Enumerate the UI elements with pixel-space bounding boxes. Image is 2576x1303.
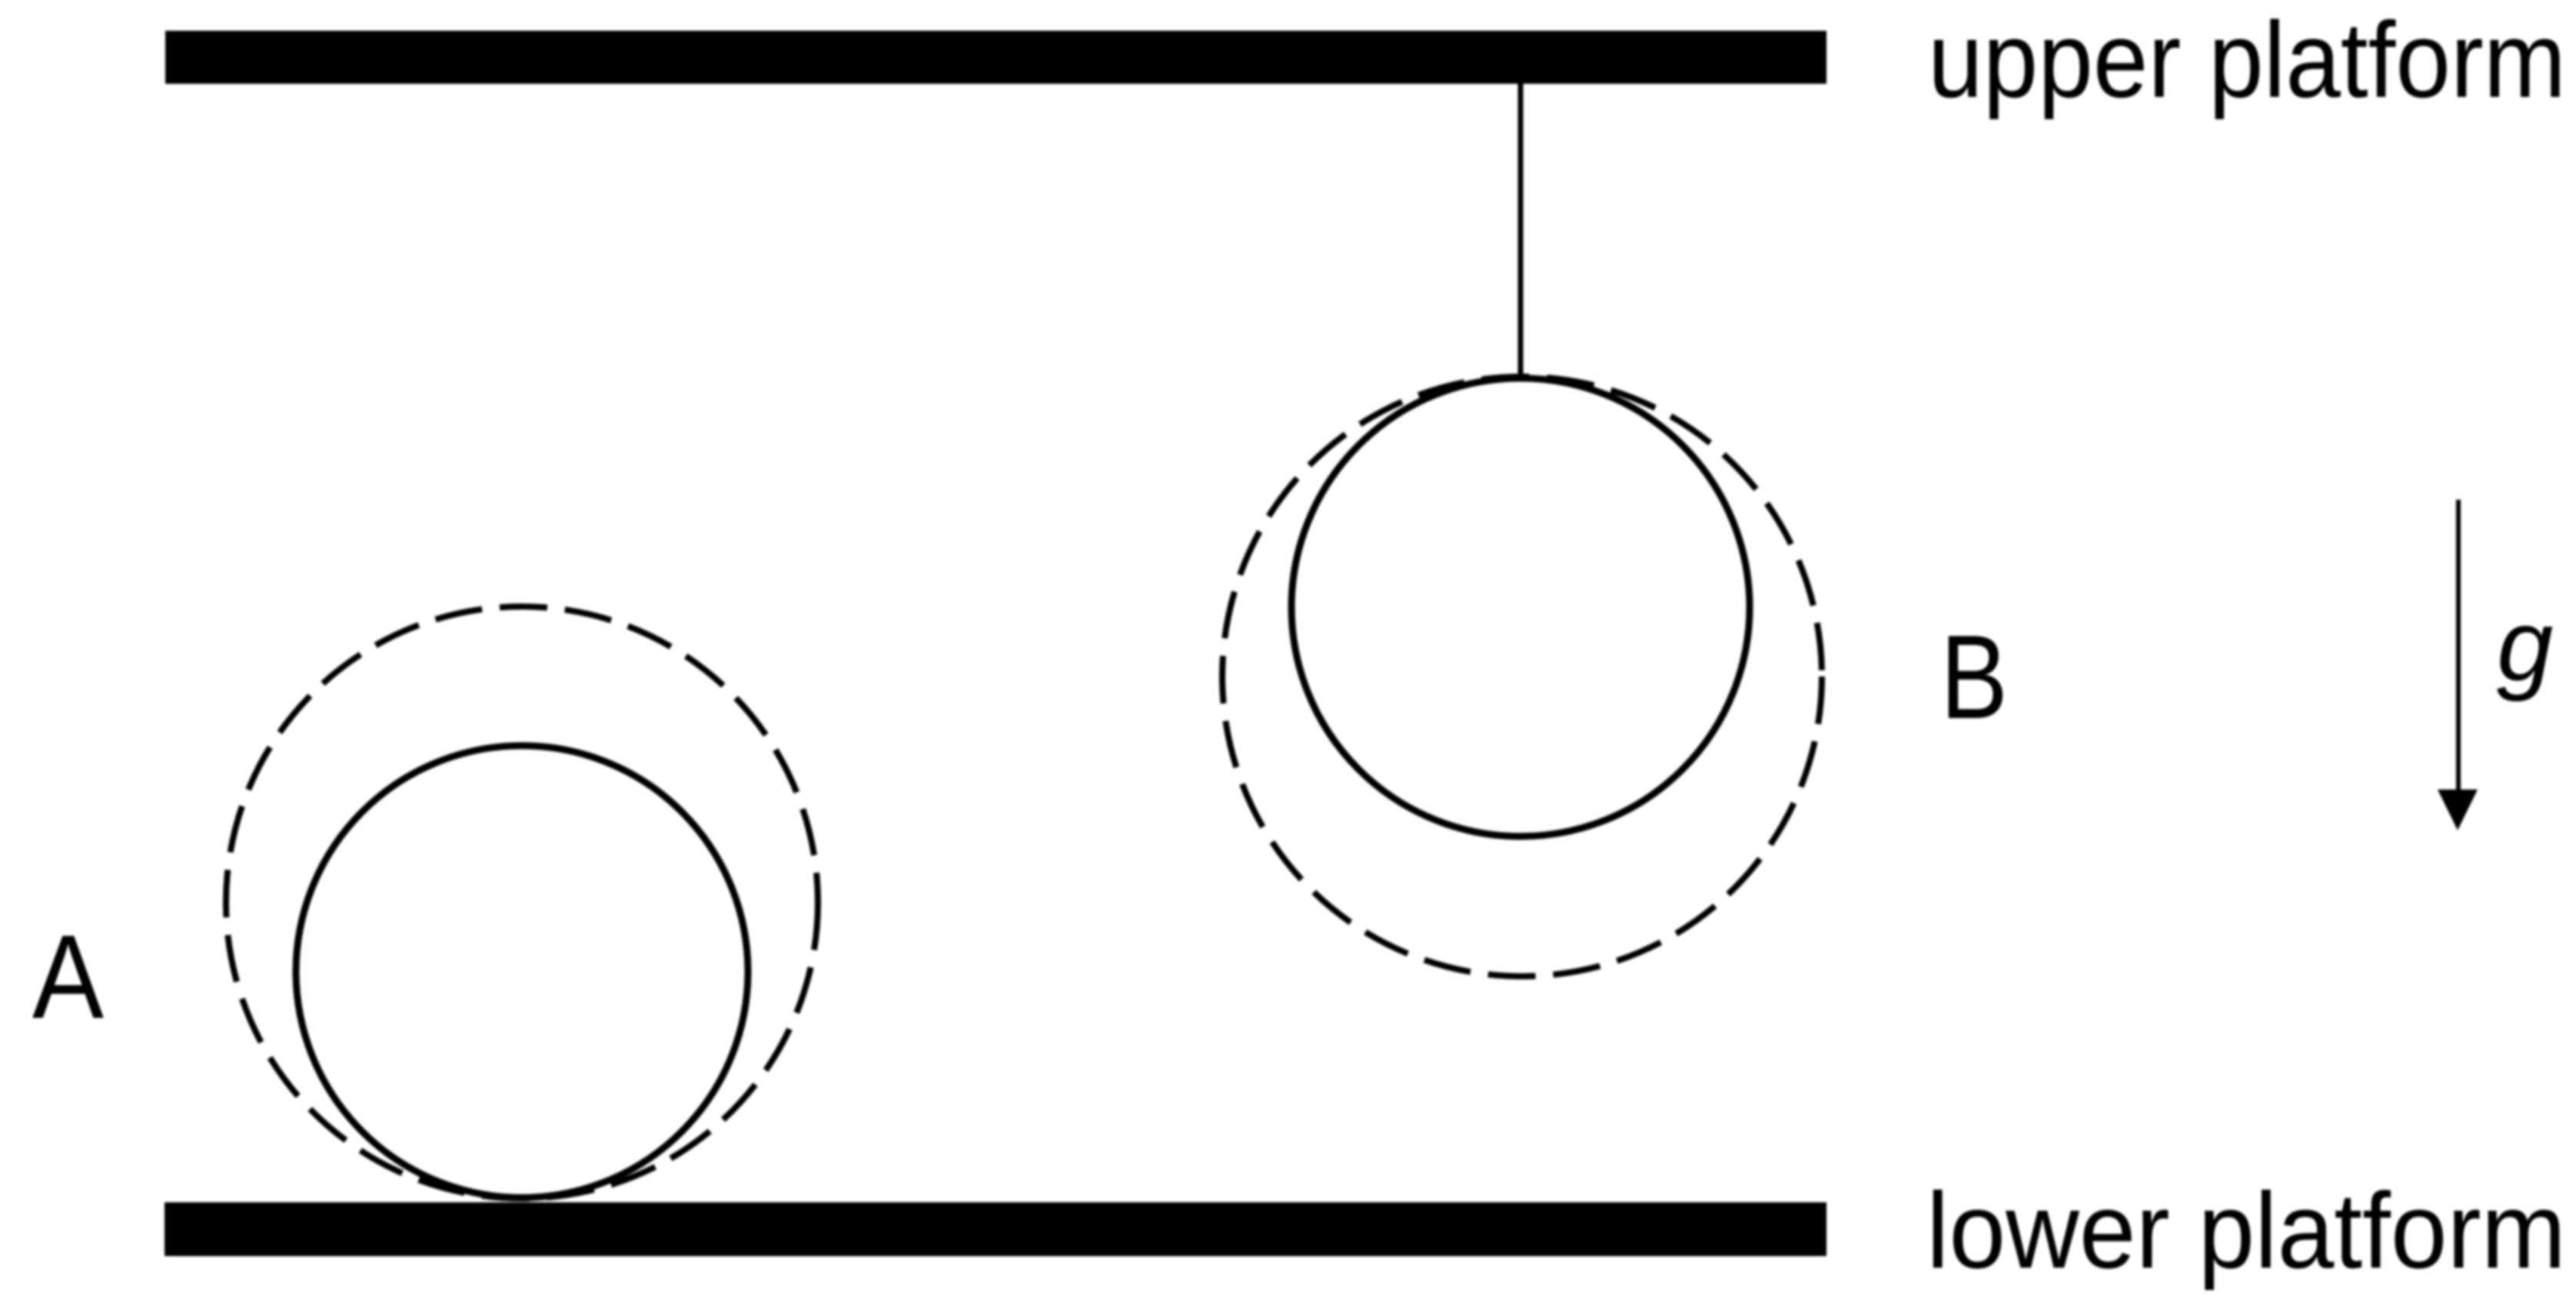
svg-text:g: g <box>2497 589 2553 702</box>
svg-text:A: A <box>32 910 105 1043</box>
gravity arrow head <box>2438 789 2478 830</box>
gravity arrow line <box>2456 500 2461 793</box>
svg-text:upper platform: upper platform <box>1928 0 2566 120</box>
lower platform bar <box>165 1202 1826 1256</box>
upper platform bar <box>165 31 1826 84</box>
svg-text:lower platform: lower platform <box>1926 1170 2566 1291</box>
string from upper platform to ball B <box>1518 81 1524 378</box>
svg-text:B: B <box>1940 610 2008 743</box>
ball B dashed circle <box>1222 377 1822 976</box>
ball A solid circle <box>296 746 748 1198</box>
ball A dashed circle <box>226 607 818 1198</box>
ball B solid circle <box>1291 378 1750 836</box>
